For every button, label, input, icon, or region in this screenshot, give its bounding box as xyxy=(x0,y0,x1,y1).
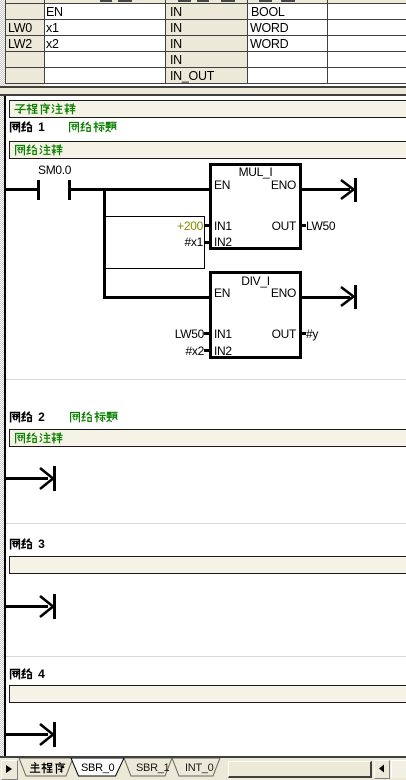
tab label SBR_1 xyxy=(136,762,169,775)
tab label 主程序 xyxy=(29,762,66,775)
table texts xyxy=(46,6,63,19)
MUL_I OUT operand LW50 xyxy=(306,220,335,233)
network separator xyxy=(6,523,406,524)
MUL_I EN pin label xyxy=(214,179,230,192)
header text slivers xyxy=(100,0,112,2)
DIV_I IN2 operand #x2 xyxy=(104,345,204,358)
open-branch arrow network 2 xyxy=(37,464,59,494)
network 2 header xyxy=(9,411,46,424)
wire rail to contact xyxy=(6,188,37,191)
network separator xyxy=(6,656,406,657)
network 4 empty banner xyxy=(9,685,406,703)
DIV_I title xyxy=(209,275,302,288)
scroll left button xyxy=(374,760,390,779)
tab label INT_0 xyxy=(185,762,213,775)
tab INT_0 xyxy=(172,758,220,776)
DIV_I IN2 pin tick xyxy=(204,349,209,352)
DIV_I OUT pin label xyxy=(216,328,296,341)
network 3 header xyxy=(9,538,46,551)
MUL_I OUT pin label xyxy=(216,220,296,233)
sheet tabs xyxy=(16,758,230,777)
contact SM0.0 left bar xyxy=(37,180,40,200)
wire MUL_I ENO out xyxy=(302,188,350,191)
DIV_I IN1 pin label xyxy=(214,328,232,341)
MUL_I IN2 pin label xyxy=(214,236,232,249)
tab label SBR_0 xyxy=(81,762,114,775)
table header partial row xyxy=(5,0,406,3)
DIV_I IN1 operand LW50 xyxy=(104,328,204,341)
scroll left glyph xyxy=(378,764,385,773)
wire DIV_I ENO out xyxy=(302,296,350,299)
table grid horizontals xyxy=(5,3,406,4)
wire branch vertical xyxy=(103,188,106,299)
DIV_I OUT pin tick xyxy=(302,332,306,335)
table var-type column xyxy=(165,0,247,84)
tab nav arrow glyph xyxy=(5,764,13,774)
op-block DIV_I box xyxy=(209,271,302,359)
MUL_I IN2 pin tick xyxy=(204,241,209,244)
DIV_I IN2 pin label xyxy=(214,345,232,358)
open-branch arrow network 4 xyxy=(37,720,59,750)
open-branch arrow after MUL_I xyxy=(338,176,360,204)
left power rail xyxy=(4,96,6,757)
table bottom border xyxy=(0,86,406,88)
DIV_I IN1 pin tick xyxy=(204,332,209,335)
CJK glyph defs xyxy=(0,0,1,1)
wire network 4 xyxy=(6,733,48,736)
scroll right button partial xyxy=(391,760,406,778)
MUL_I ENO pin label xyxy=(216,179,296,192)
wire network 2 xyxy=(6,477,48,480)
operand +200 xyxy=(103,220,203,233)
wire network 3 xyxy=(6,605,48,608)
wire contact to MUL_I EN xyxy=(71,188,209,191)
tab SBR_0 active xyxy=(71,758,124,776)
open-branch arrow after DIV_I xyxy=(338,283,360,311)
dotted window-edge strip xyxy=(0,0,5,780)
network separator xyxy=(6,379,406,380)
network 4 header xyxy=(9,668,46,681)
network 1 comment banner xyxy=(9,141,406,159)
table grid verticals xyxy=(5,0,6,84)
DIV_I OUT operand #y xyxy=(306,328,318,341)
table row-header column xyxy=(5,0,44,84)
MUL_I IN1 pin tick xyxy=(204,224,209,227)
network 1 header xyxy=(9,121,46,134)
op-block MUL_I box xyxy=(209,163,302,250)
open-branch arrow network 3 xyxy=(37,592,59,622)
network 2 comment banner xyxy=(9,429,406,447)
DIV_I ENO pin label xyxy=(216,287,296,300)
wire branch to DIV_I EN xyxy=(103,296,209,299)
editor pane top edge xyxy=(0,94,406,96)
contact SM0.0 right bar xyxy=(68,180,71,200)
selection box around operands xyxy=(105,216,205,269)
contact SM0.0 label xyxy=(38,164,71,177)
splitter bar xyxy=(0,88,406,94)
tab nav button left xyxy=(1,760,18,780)
tab SBR_1 xyxy=(124,758,172,776)
POU comment banner xyxy=(9,100,406,118)
tab strip scrollbar thumb xyxy=(228,761,372,778)
network 3 empty banner xyxy=(9,556,406,574)
MUL_I IN1 pin label xyxy=(214,220,232,233)
MUL_I OUT pin tick xyxy=(302,224,306,227)
DIV_I EN pin label xyxy=(214,287,230,300)
MUL_I title xyxy=(209,166,302,179)
partial row under table xyxy=(5,84,44,86)
operand #x1 xyxy=(103,236,203,249)
tab 主程序 xyxy=(19,758,73,776)
